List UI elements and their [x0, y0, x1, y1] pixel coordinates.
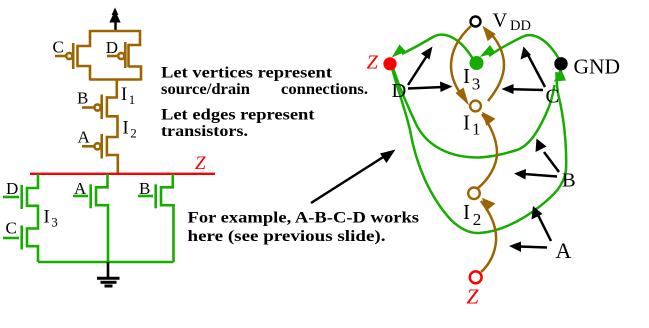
svg-text:Z: Z: [195, 153, 206, 174]
transistor D gate bubble: [118, 53, 124, 59]
NMOS pull-down network (green): [3, 174, 174, 262]
vertex Z (bottom, red): [470, 271, 482, 283]
edge A-brown: I2 to Z: [481, 201, 496, 272]
svg-text:I: I: [463, 200, 470, 224]
arrowhead into I2: [482, 198, 496, 211]
wire B source to node I2: [107, 116, 118, 137]
edge D-green: I3 to Z (hump): [402, 35, 473, 59]
arrowhead into I3: [480, 45, 496, 57]
edge B-green: Z to GND (upper arc): [393, 66, 555, 158]
svg-text:B: B: [139, 179, 150, 198]
wire A gate lead: [82, 145, 94, 148]
arrow B to brown edge: [514, 169, 557, 180]
transistor D gate bar: [20, 185, 23, 209]
transistor C gate bar: [20, 226, 23, 250]
wire D source to node I3: [27, 206, 38, 229]
svg-text:I: I: [463, 111, 470, 135]
svg-text:Z: Z: [367, 52, 379, 74]
svg-text:A: A: [78, 128, 91, 147]
svg-text:I: I: [463, 64, 470, 88]
wire C gate lead: [55, 55, 66, 58]
vertex I2: [468, 188, 480, 200]
transistor B gate bar: [100, 95, 103, 120]
wire middle branch (A) from Z rail: [96, 174, 108, 187]
edge B-brown: I1 to I2: [478, 114, 497, 188]
svg-text:For example, A-B-C-D works: For example, A-B-C-D works: [188, 210, 420, 227]
vertex I3 (green): [470, 56, 484, 70]
arrowhead into GND: [554, 68, 566, 82]
svg-text:I: I: [44, 208, 50, 228]
svg-text:C: C: [6, 219, 17, 238]
wire left branch from Z rail: [27, 174, 38, 188]
svg-text:source/drain: source/drain: [161, 81, 250, 98]
PMOS pull-up network (brown): [55, 30, 141, 173]
svg-text:I: I: [121, 85, 127, 105]
wire A gate lead: [73, 195, 88, 198]
transistor A gate bar: [89, 184, 92, 208]
svg-text:transistors.: transistors.: [161, 123, 248, 140]
VDD arrow (black, top of PMOS stack): [109, 8, 120, 32]
wire C source down to ground rail: [27, 246, 38, 262]
vertex VDD: [471, 17, 481, 27]
transistor C (NMOS) channel: [26, 227, 29, 247]
arrow C to brown edge: [502, 84, 544, 94]
arrowhead into Z: [392, 45, 406, 58]
svg-text:C: C: [53, 38, 64, 57]
svg-text:DD: DD: [510, 18, 531, 34]
ground: [97, 262, 120, 286]
wire right branch (B) from Z rail: [161, 174, 173, 187]
transistor C gate bar: [72, 43, 75, 69]
transistor A gate bar: [100, 134, 103, 159]
wire B source down to ground rail: [161, 205, 174, 262]
arrow from text to graph: [311, 150, 396, 204]
wire A source down to Z rail: [107, 155, 118, 173]
wire top rail: [90, 30, 141, 33]
transistor B gate bar: [154, 184, 157, 208]
arrow A to green arc: [532, 206, 552, 241]
arrowhead into I1: [482, 112, 496, 126]
svg-text:2: 2: [473, 210, 482, 229]
wire right side down to D: [129, 30, 141, 45]
edge A-green: Z to GND (lower arc): [392, 66, 567, 233]
transistor A gate bubble: [94, 143, 100, 149]
svg-text:B: B: [77, 89, 88, 108]
svg-text:D: D: [106, 38, 118, 57]
arrow A to brown edge: [509, 242, 547, 253]
arrowhead into I1: [456, 88, 470, 106]
text: For example, A-B-C-D works here (see previous slide).: [188, 210, 420, 246]
transistor C gate bubble: [66, 53, 72, 59]
wire C gate lead: [3, 237, 19, 240]
arrow D to brown edge: [408, 82, 453, 93]
text: Let vertices represent source/drain connections.: [161, 65, 368, 141]
transistor A (NMOS) channel: [95, 186, 98, 207]
transistor B gate bubble: [94, 104, 100, 110]
wire B gate lead: [82, 106, 94, 109]
transistor D gate bar: [124, 42, 127, 68]
wire left side down to C: [78, 30, 91, 46]
wire B gate lead: [138, 195, 153, 198]
edge D-brown: VDD to I1 (left lens): [451, 26, 471, 98]
svg-text:A: A: [74, 179, 87, 198]
svg-text:3: 3: [472, 75, 481, 94]
arrow C to green edge: [521, 47, 546, 88]
svg-text:Let vertices represent: Let vertices represent: [161, 65, 333, 82]
svg-text:Let edges represent: Let edges represent: [161, 107, 315, 124]
svg-text:D: D: [6, 179, 18, 198]
svg-text:2: 2: [130, 126, 137, 141]
arrow B to green arc: [536, 139, 560, 173]
svg-text:3: 3: [51, 215, 58, 230]
wire ground rail: [38, 261, 174, 264]
wire bottom rail of parallel pair: [90, 78, 141, 81]
vertex I1: [470, 101, 481, 112]
svg-text:V: V: [493, 10, 508, 32]
transistor D (NMOS) channel: [26, 187, 29, 207]
vertex Z (left, red): [383, 57, 396, 70]
wire drop to node I1: [107, 80, 117, 98]
svg-text:1: 1: [472, 120, 481, 139]
edge C-brown: I1 to VDD (right lens): [488, 31, 504, 101]
transistor C channel: [76, 45, 79, 67]
svg-text:connections.: connections.: [281, 81, 368, 98]
wire C source lead: [78, 66, 91, 81]
svg-text:C: C: [546, 86, 560, 108]
vertex GND: [554, 57, 567, 70]
transistor A channel: [106, 136, 109, 157]
svg-text:1: 1: [129, 92, 136, 107]
wire A source down to ground rail: [96, 205, 108, 262]
wire D gate lead: [107, 55, 118, 58]
svg-text:B: B: [562, 170, 576, 192]
arrow D to green edge: [408, 47, 433, 86]
svg-text:D: D: [392, 80, 407, 102]
svg-text:here (see previous slide).: here (see previous slide).: [188, 228, 386, 245]
svg-text:A: A: [556, 238, 572, 263]
transistor B channel: [106, 96, 109, 117]
wire D gate lead: [3, 196, 19, 199]
transistor B (NMOS) channel: [160, 186, 163, 207]
transistor D channel: [127, 44, 130, 67]
svg-text:I: I: [123, 119, 129, 139]
edge C-green: GND to I3 (hump): [489, 35, 559, 59]
arrowhead into VDD: [483, 26, 496, 41]
net Z rail (red): [30, 173, 215, 175]
svg-text:Z: Z: [467, 285, 480, 309]
svg-text:GND: GND: [574, 55, 621, 79]
wire D source lead: [129, 67, 142, 81]
